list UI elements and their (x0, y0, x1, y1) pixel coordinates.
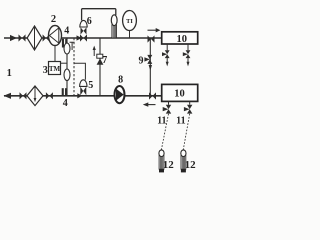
gauge oval B (64, 69, 70, 81)
svg-text:5: 5 (88, 80, 93, 91)
valve (top, centre) (80, 34, 87, 41)
three-way valve 11 (right) (184, 102, 193, 114)
drain valve B under top header (183, 44, 191, 66)
outlet flow arrow (bottom left) (4, 93, 12, 99)
three-way valve 11 (left) (163, 102, 172, 114)
air collector (111, 15, 117, 38)
wire impulse dashed riser (73, 38, 75, 96)
thermomanometer TM 3 (49, 62, 61, 75)
svg-text:12: 12 (185, 159, 197, 171)
tank 12 (left) (159, 150, 164, 173)
flow arrow from header (148, 104, 156, 106)
wire return main (bottom) (4, 95, 162, 97)
flow arrow (top line) (77, 35, 82, 40)
thermometer pockets 4 (bottom) (62, 88, 64, 96)
thermometer TI (123, 11, 137, 39)
valve (top right) (148, 35, 155, 42)
drain line to tank (left) (161, 114, 168, 150)
svg-text:TI: TI (126, 18, 133, 25)
svg-text:9: 9 (139, 55, 144, 66)
svg-text:7: 7 (102, 55, 107, 66)
flow arrow to header (148, 29, 157, 31)
valve left 1 (top) (19, 34, 26, 41)
header 10 (top) (162, 32, 198, 45)
svg-text:1: 1 (7, 68, 12, 79)
svg-text:8: 8 (118, 75, 123, 86)
svg-text:10: 10 (174, 88, 185, 99)
valve left 2 (top) (43, 34, 50, 41)
svg-text:12: 12 (163, 159, 175, 171)
tank 12 (right) (181, 150, 186, 173)
wire vent pipe top (82, 9, 116, 21)
wire impulse to regulator 5 (74, 63, 85, 80)
down flow arrow (bypass) (149, 65, 152, 71)
drain tap (top) (70, 42, 75, 50)
gauge oval A (64, 43, 70, 54)
wire bypass riser (149, 38, 151, 96)
flow arrow (bottom line) (77, 93, 82, 98)
pump 8 (115, 86, 125, 103)
valve left 2 (bottom) (46, 92, 53, 99)
wire supply main (top) (4, 37, 162, 39)
svg-text:4: 4 (64, 26, 69, 37)
air vent 6 (80, 20, 87, 34)
wire TM gauge link (61, 62, 68, 64)
filter (bottom diamond) (27, 86, 43, 106)
svg-text:TM: TM (49, 65, 61, 73)
wire pump 2 to TM (54, 45, 56, 61)
wire check-valve riser (99, 38, 101, 96)
drain line to tank (right) (183, 114, 189, 150)
svg-text:11: 11 (176, 116, 185, 127)
valve left 1 (bottom) (20, 92, 27, 99)
drain valve A under top header (162, 44, 170, 66)
wire riser with gauges (66, 38, 68, 96)
thermometer pockets 4 (top) (62, 39, 64, 48)
svg-text:10: 10 (177, 34, 188, 45)
filter (top diamond) (27, 26, 42, 50)
valve (bottom right) (149, 92, 156, 99)
pressure regulator 5 (80, 80, 87, 95)
svg-text:3: 3 (43, 65, 48, 76)
svg-text:11: 11 (157, 116, 166, 127)
up flow arrow (riser) (93, 50, 95, 57)
pump 2 (49, 26, 62, 46)
svg-text:6: 6 (87, 16, 92, 27)
inlet flow arrow (10, 35, 17, 41)
valve 9 (three-way on bypass) (144, 55, 152, 64)
check valve 7 (97, 54, 104, 65)
svg-text:2: 2 (51, 14, 56, 25)
header 10 (bottom) (162, 84, 198, 101)
svg-text:4: 4 (63, 98, 68, 109)
